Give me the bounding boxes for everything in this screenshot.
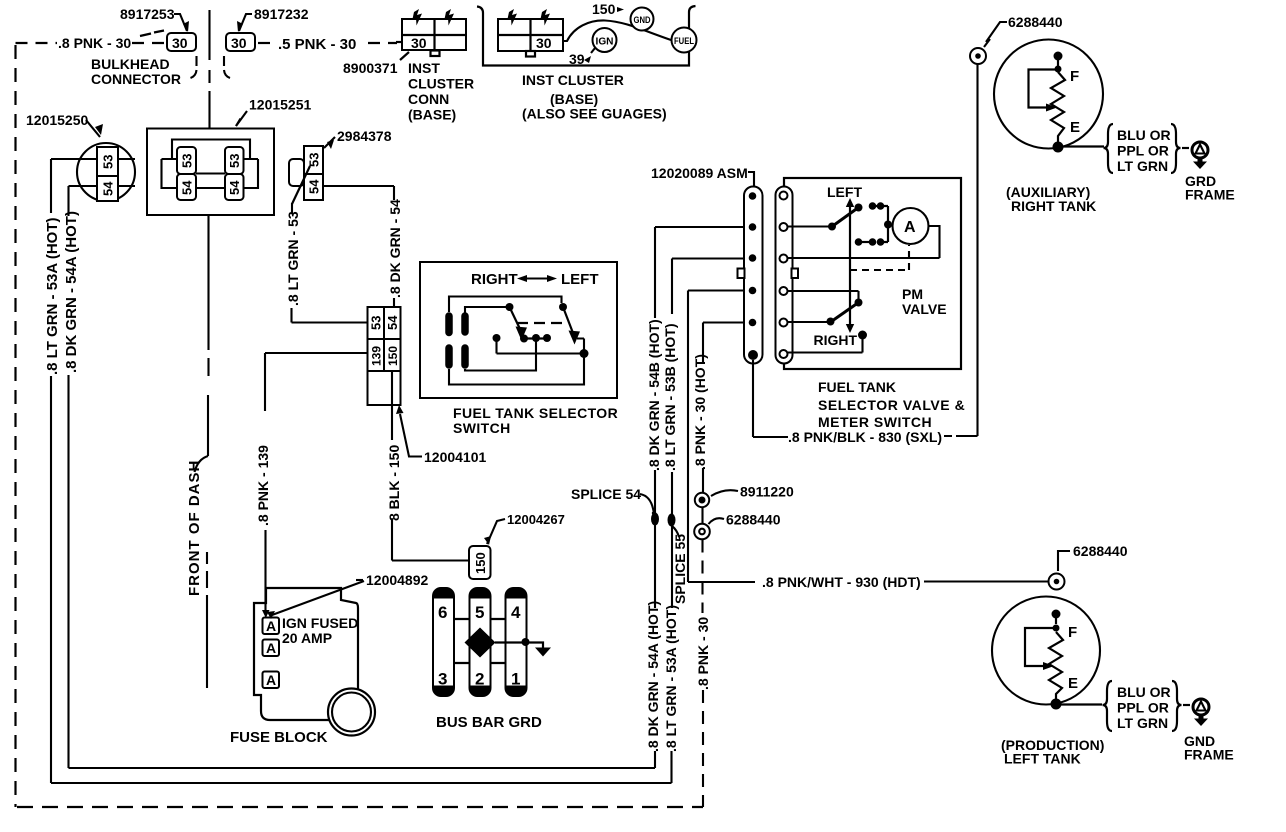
svg-text:8911220: 8911220 <box>740 484 794 500</box>
svg-text:2984378: 2984378 <box>337 128 392 144</box>
svg-text:.8 LT GRN - 53: .8 LT GRN - 53 <box>285 211 301 306</box>
svg-text:12020089 ASM: 12020089 ASM <box>651 165 748 181</box>
svg-text:FRONT OF DASH: FRONT OF DASH <box>186 460 203 596</box>
svg-text:CONNECTOR: CONNECTOR <box>91 71 181 87</box>
svg-text:150: 150 <box>592 1 616 17</box>
svg-text:8917232: 8917232 <box>254 6 309 22</box>
svg-text:LT GRN: LT GRN <box>1117 715 1168 731</box>
svg-text:6288440: 6288440 <box>726 512 781 528</box>
svg-text:SELECTOR VALVE &: SELECTOR VALVE & <box>818 397 965 413</box>
svg-text:F: F <box>1068 624 1077 641</box>
svg-text:RIGHT: RIGHT <box>471 271 518 288</box>
svg-text:PM: PM <box>902 286 923 302</box>
svg-text:53: 53 <box>369 316 384 330</box>
svg-text:LEFT: LEFT <box>827 184 862 200</box>
svg-text:RIGHT TANK: RIGHT TANK <box>1011 198 1096 214</box>
svg-text:.8 LT GRN - 53A (HOT): .8 LT GRN - 53A (HOT) <box>44 217 61 375</box>
svg-text:FRAME: FRAME <box>1184 747 1234 763</box>
svg-text:F: F <box>1070 68 1079 85</box>
svg-text:PPL OR: PPL OR <box>1117 143 1169 159</box>
svg-text:2: 2 <box>475 670 484 689</box>
svg-text:.8 PNK - 30: .8 PNK - 30 <box>695 617 711 690</box>
svg-text:FUEL: FUEL <box>674 36 694 47</box>
svg-text:4: 4 <box>511 603 521 622</box>
svg-text:30: 30 <box>411 35 427 51</box>
svg-text:A: A <box>266 618 276 634</box>
svg-text:FUEL TANK SELECTOR: FUEL TANK SELECTOR <box>453 405 618 421</box>
svg-text:54: 54 <box>307 179 322 194</box>
svg-text:53: 53 <box>227 154 242 168</box>
svg-text:.8 DK GRN - 54A (HOT): .8 DK GRN - 54A (HOT) <box>645 601 661 752</box>
svg-text:.8 LT GRN - 53A (HOT): .8 LT GRN - 53A (HOT) <box>663 605 679 752</box>
svg-text:150: 150 <box>473 552 488 574</box>
svg-text:8900371: 8900371 <box>343 60 398 76</box>
svg-text:.8 DK GRN - 54: .8 DK GRN - 54 <box>387 199 403 298</box>
svg-text:53: 53 <box>180 154 195 168</box>
svg-text:54: 54 <box>227 180 242 195</box>
svg-text:30: 30 <box>172 35 188 51</box>
svg-text:8 BLK - 150: 8 BLK - 150 <box>386 445 402 521</box>
svg-text:.8 PNK - 30 (HOT): .8 PNK - 30 (HOT) <box>692 354 708 470</box>
svg-text:5: 5 <box>475 603 484 622</box>
svg-text:6288440: 6288440 <box>1073 543 1128 559</box>
svg-text:53: 53 <box>101 155 116 169</box>
svg-text:SPLICE 55: SPLICE 55 <box>672 534 688 604</box>
svg-text:6288440: 6288440 <box>1008 14 1063 30</box>
svg-text:A: A <box>904 219 916 236</box>
svg-text:12004267: 12004267 <box>507 512 565 527</box>
svg-text:54: 54 <box>385 315 400 330</box>
svg-text:IGN FUSED: IGN FUSED <box>282 615 358 631</box>
svg-text:6: 6 <box>438 603 447 622</box>
svg-text:FUSE BLOCK: FUSE BLOCK <box>230 729 328 746</box>
svg-text:VALVE: VALVE <box>902 301 947 317</box>
svg-text:39: 39 <box>569 51 585 67</box>
svg-text:GND: GND <box>634 15 651 26</box>
svg-text:.8 DK GRN - 54A (HOT): .8 DK GRN - 54A (HOT) <box>63 211 80 373</box>
svg-text:LEFT TANK: LEFT TANK <box>1004 751 1081 767</box>
svg-text:3: 3 <box>438 670 447 689</box>
svg-text:30: 30 <box>536 35 552 51</box>
svg-text:53: 53 <box>307 153 322 167</box>
svg-text:.8 PNK/BLK - 830 (SXL): .8 PNK/BLK - 830 (SXL) <box>788 429 942 445</box>
svg-text:BLU OR: BLU OR <box>1117 127 1171 143</box>
svg-text:E: E <box>1070 119 1080 136</box>
svg-text:PPL OR: PPL OR <box>1117 700 1169 716</box>
svg-text:150: 150 <box>386 346 400 366</box>
svg-text:LEFT: LEFT <box>561 271 599 288</box>
svg-text:BLU OR: BLU OR <box>1117 684 1171 700</box>
svg-text:FRAME: FRAME <box>1185 187 1235 203</box>
svg-text:BUS BAR GRD: BUS BAR GRD <box>436 714 542 731</box>
svg-text:(ALSO SEE GUAGES): (ALSO SEE GUAGES) <box>522 106 667 122</box>
svg-text:54: 54 <box>180 180 195 195</box>
svg-text:12015251: 12015251 <box>249 97 312 113</box>
svg-text:139: 139 <box>370 346 384 366</box>
svg-text:IGN: IGN <box>596 37 614 48</box>
svg-text:1: 1 <box>511 670 520 689</box>
svg-text:FUEL TANK: FUEL TANK <box>818 379 896 395</box>
svg-text:INST: INST <box>408 60 440 76</box>
svg-text:.8 PNK/WHT - 930 (HDT): .8 PNK/WHT - 930 (HDT) <box>762 574 921 590</box>
svg-text:12015250: 12015250 <box>26 112 89 128</box>
svg-text:.8 PNK - 30: .8 PNK - 30 <box>58 35 131 51</box>
svg-text:12004892: 12004892 <box>366 572 429 588</box>
svg-text:RIGHT: RIGHT <box>814 332 858 348</box>
svg-text:A: A <box>266 640 276 656</box>
svg-text:.8 LT GRN - 53B (HOT): .8 LT GRN - 53B (HOT) <box>662 323 678 471</box>
svg-text:.8 PNK - 139: .8 PNK - 139 <box>255 445 271 526</box>
svg-text:30: 30 <box>231 35 247 51</box>
svg-text:54: 54 <box>101 181 116 196</box>
svg-text:.5 PNK - 30: .5 PNK - 30 <box>278 36 356 53</box>
svg-text:12004101: 12004101 <box>424 449 487 465</box>
svg-text:8917253: 8917253 <box>120 6 175 22</box>
svg-text:METER SWITCH: METER SWITCH <box>818 414 932 430</box>
svg-text:BULKHEAD: BULKHEAD <box>91 56 170 72</box>
svg-text:SWITCH: SWITCH <box>453 420 511 436</box>
svg-text:.8 DK GRN - 54B (HOT): .8 DK GRN - 54B (HOT) <box>646 319 662 471</box>
svg-text:SPLICE 54: SPLICE 54 <box>571 486 641 502</box>
svg-text:INST CLUSTER: INST CLUSTER <box>522 72 624 88</box>
svg-text:CONN: CONN <box>408 91 449 107</box>
svg-text:20 AMP: 20 AMP <box>282 630 332 646</box>
svg-text:CLUSTER: CLUSTER <box>408 76 474 92</box>
svg-text:LT GRN: LT GRN <box>1117 158 1168 174</box>
svg-text:E: E <box>1068 675 1078 692</box>
svg-text:(BASE): (BASE) <box>408 107 456 123</box>
svg-text:A: A <box>266 672 276 688</box>
